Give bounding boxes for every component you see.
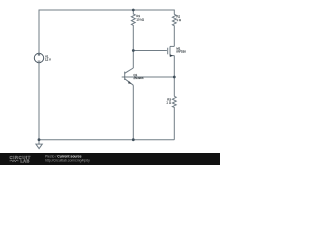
wire R1 to Q1 collector xyxy=(132,51,134,69)
logo zigzag xyxy=(10,160,19,162)
wire Q1 base to source node xyxy=(122,76,175,78)
label R2 xyxy=(176,15,181,22)
wire left column below V1 xyxy=(38,63,40,140)
label R3 xyxy=(166,98,171,105)
logo CIRCUIT xyxy=(10,155,31,164)
svg-text:IRF530: IRF530 xyxy=(176,50,186,54)
wire Q1 emitter down xyxy=(132,85,134,140)
svg-text:10 kΩ: 10 kΩ xyxy=(136,17,144,21)
label Q1 xyxy=(133,73,144,80)
node gate junction xyxy=(132,49,135,52)
arrow M1 source xyxy=(170,54,173,57)
footer title xyxy=(45,155,90,163)
resistor R2 xyxy=(172,14,176,46)
footer bar xyxy=(0,153,220,165)
wire M1 source down xyxy=(173,56,175,97)
resistor R1 xyxy=(131,10,135,51)
ground xyxy=(36,140,42,149)
label V1 xyxy=(45,55,51,62)
svg-text:12 V: 12 V xyxy=(45,58,51,62)
label R1 xyxy=(136,14,144,21)
svg-text:http://circuitlab.com/cmg4tp6y: http://circuitlab.com/cmg4tp6y xyxy=(45,158,90,162)
wire bottom rail xyxy=(39,139,174,141)
svg-text:LAB: LAB xyxy=(20,159,30,164)
mosfet M1 xyxy=(168,46,175,55)
voltage source V1 xyxy=(34,53,43,62)
node emitter/bottom xyxy=(132,138,135,141)
svg-text:2N3904: 2N3904 xyxy=(133,76,144,80)
node R1 top xyxy=(132,9,135,12)
wire top rail xyxy=(39,10,174,53)
node ground xyxy=(38,138,41,141)
node dots xyxy=(38,9,176,142)
arrow Q1 emitter xyxy=(128,81,131,84)
transistor Q1 xyxy=(125,68,134,85)
label M1 xyxy=(176,46,186,53)
resistor R3 xyxy=(172,96,176,139)
wire gate xyxy=(133,50,167,52)
node source/base xyxy=(173,76,176,79)
